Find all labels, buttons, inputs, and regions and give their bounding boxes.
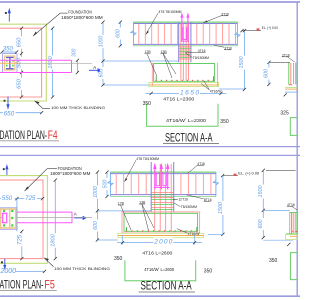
slab top green line — [134, 21, 238, 23]
svg-text:4T8 T8/150MM: 4T8 T8/150MM — [159, 10, 182, 14]
section marker arrow down (F5 bottom) — [1, 259, 6, 270]
svg-text:600: 600 — [116, 29, 122, 38]
beam centerline gray — [19, 62, 92, 64]
sheet frame mid border lower — [0, 154, 300, 156]
dim 2000 horizontal bottom (F5) — [0, 270, 45, 272]
slab top blue line — [110, 173, 215, 175]
svg-text:4T16/W: 4T16/W — [210, 89, 223, 93]
svg-text:325: 325 — [280, 111, 289, 117]
pedestal blue outline verticals — [179, 22, 191, 62]
slab top green line (bottom section) — [110, 171, 215, 173]
dim 500 slab depth (bottom section) — [106, 172, 108, 196]
dim text 650 lower — [18, 78, 23, 90]
leader to FOUNDATION label F4 — [33, 13, 68, 36]
svg-text:650: 650 — [17, 78, 23, 88]
dim 300 beam width — [76, 60, 78, 72]
column bars red verticals (bottom) — [155, 164, 172, 231]
anchor hairpin magenta U — [183, 27, 187, 39]
svg-text:550: 550 — [2, 195, 13, 202]
red dots at wall base — [292, 231, 293, 232]
level line EL 0.00 (bottom sheet mid) — [223, 175, 238, 177]
svg-text:T8/150MM: T8/150MM — [193, 56, 209, 60]
level line (bottom right mini section) — [266, 169, 296, 171]
column F4 steel I-section (indigo) — [6, 57, 14, 70]
tie beam plan F5 (magenta) — [17, 212, 72, 223]
slab bottom blue line — [110, 194, 215, 196]
svg-text:1800: 1800 — [50, 233, 56, 246]
svg-text:12T16: 12T16 — [178, 198, 188, 202]
dim extension stub to footing top (bottom section) — [97, 210, 151, 212]
slab top blue line — [134, 23, 238, 25]
column F5 outer outline (periwinkle) — [0, 208, 17, 230]
svg-text:500: 500 — [17, 57, 23, 67]
orange blinding line (bottom) — [118, 235, 203, 237]
svg-text:4T16/Wʼ L=2300: 4T16/Wʼ L=2300 — [166, 118, 206, 124]
svg-text:1000: 1000 — [93, 186, 99, 198]
svg-text:1500: 1500 — [239, 57, 245, 69]
pedestal blue outline (bottom section) — [151, 162, 174, 212]
dim text 650 upper — [18, 36, 23, 48]
footing pink outline (bottom section) — [122, 212, 200, 233]
foundation outline plan F5 (1800x1800) — [0, 180, 43, 259]
stub lower (bottom right) — [263, 239, 293, 241]
column F4 base plate (tan) — [5, 56, 15, 70]
orange blinding line — [149, 84, 218, 86]
slab bottom green line — [134, 45, 238, 47]
dim 1650 footing width — [146, 92, 227, 94]
column ties green horizontals — [179, 49, 190, 58]
blinding outline plan F4 (100mm blinding, yellow-green) — [0, 24, 46, 101]
wall section green edges — [289, 63, 296, 85]
bar shape green bracket (right top) — [290, 118, 297, 136]
slab bottom green line — [110, 196, 215, 198]
column F5 base grid (tan) — [1, 209, 16, 228]
svg-text:300: 300 — [72, 48, 78, 57]
dim extension stub to blinding bottom — [97, 239, 117, 241]
dim connector vertical x=16.9 — [16, 199, 18, 232]
blinding under footing (bottom) — [118, 233, 204, 237]
dim 1500 (bottom sheet mid) — [222, 176, 224, 235]
stub to right dim — [219, 88, 245, 90]
dim chain left x=21.5 (650/500/650) — [21, 28, 23, 97]
svg-text:600: 600 — [258, 220, 264, 229]
bar bending shape green U (F4) — [147, 104, 218, 127]
dim 600 (right mini section) — [268, 62, 270, 84]
dim 725 vertical (F5 left) — [21, 231, 23, 258]
slab hatch left (bottom) — [116, 174, 146, 195]
title underline F5 — [0, 289, 57, 291]
svg-text:1650: 1650 — [180, 90, 199, 97]
svg-text:1500: 1500 — [218, 202, 224, 214]
footing bottom rebar dots — [156, 80, 215, 81]
column bars red verticals — [181, 24, 189, 81]
wall hatch red (bottom right) — [293, 213, 295, 233]
svg-text:350: 350 — [220, 119, 229, 125]
beam centerline gray (F5) — [0, 216, 2, 218]
blinding box below wall — [286, 235, 298, 240]
svg-text:600: 600 — [98, 69, 104, 78]
footing pink outline (section F4) — [152, 63, 217, 86]
column ties green horizontals (bottom) — [152, 194, 174, 209]
stub from footing to 1500 dim — [208, 233, 223, 235]
foundation outline plan F4 (pink 1650x1800) — [0, 28, 42, 97]
svg-text:EL. (+) 0.00: EL. (+) 0.00 — [262, 26, 278, 30]
wall section (bottom right): pink edge — [289, 212, 291, 233]
svg-text:100 MM THICK BLINDING: 100 MM THICK BLINDING — [54, 266, 110, 271]
svg-text:2000: 2000 — [153, 239, 172, 246]
dim chain left (1000/600) top section — [102, 22, 104, 85]
svg-text:SECTION A-A: SECTION A-A — [141, 278, 193, 292]
svg-text:350: 350 — [143, 101, 152, 107]
dim 2000 footing width (bottom) — [117, 242, 202, 244]
column F5 steel section magenta I — [2, 213, 8, 223]
svg-text:FOUNDATION: FOUNDATION — [68, 10, 92, 15]
svg-text:725: 725 — [25, 195, 36, 202]
column F4 outer outline (periwinkle) — [3, 54, 17, 73]
slab bottom blue line — [134, 43, 238, 45]
level line EL 0.00 (top sheet) — [242, 30, 261, 32]
svg-text:4T16/Wʼ L=2600: 4T16/Wʼ L=2600 — [144, 267, 174, 273]
footing green outline (bottom section) — [124, 213, 198, 231]
sheet frame mid border upper — [0, 146, 300, 148]
footing green outline — [154, 64, 215, 82]
svg-text:4T8 T8/150MM: 4T8 T8/150MM — [136, 157, 159, 161]
slab right break — [215, 172, 217, 196]
svg-text:EL. (+) 0.00: EL. (+) 0.00 — [238, 171, 259, 175]
green line below wall — [286, 233, 297, 235]
svg-text:600: 600 — [264, 69, 270, 78]
svg-text:350: 350 — [114, 256, 123, 262]
dim extension stub to footing bottom — [103, 84, 149, 86]
column F5 rebar dots green — [3, 210, 13, 227]
svg-text:SECTION A-A: SECTION A-A — [165, 130, 213, 144]
anchor hairpins magenta double U — [156, 172, 159, 186]
svg-text:1650*1800*600 MM: 1650*1800*600 MM — [61, 15, 103, 20]
dim text 500 — [18, 57, 23, 69]
blinding lines below wall — [285, 86, 297, 88]
dim chain left (1000/600) bottom section — [96, 172, 98, 240]
stub to wall top (bottom right) — [263, 209, 290, 211]
leader + label 100 MM THICK BLINDING (F5) — [44, 258, 54, 267]
dim 1800 vertical (F5 right) — [54, 180, 56, 259]
slab hatch right (bottom) — [181, 174, 211, 195]
dim 1800 vertical x=52.6 — [52, 28, 54, 97]
blinding outline plan F5 — [0, 176, 47, 264]
svg-text:DATION PLAN-: DATION PLAN- — [0, 130, 47, 142]
sheet frame bottom border — [0, 295, 300, 297]
footing bottom rebar dots (bottom) — [126, 230, 198, 231]
dim ext lines from footing corners — [123, 235, 195, 245]
svg-text:4T16 L=2300: 4T16 L=2300 — [163, 97, 194, 103]
dim extension stub to footing top — [103, 60, 179, 62]
dim 1500 (top sheet right) — [243, 31, 245, 90]
dim 350 top of column — [2, 51, 17, 53]
svg-text:4T16 L=2600: 4T16 L=2600 — [142, 250, 172, 256]
svg-text:500: 500 — [102, 180, 108, 189]
orange centerline near column — [0, 62, 19, 64]
svg-text:4T16/W: 4T16/W — [188, 232, 201, 236]
svg-text:F4: F4 — [48, 130, 58, 142]
svg-text:2000: 2000 — [0, 268, 16, 275]
column ties red horizontals (bottom) — [151, 193, 174, 208]
north arrow plan F5 — [3, 164, 9, 176]
north arrow plan F4 — [5, 8, 11, 22]
blinding under footing — [149, 82, 219, 86]
dim 550/725 horizontal (F5 top) — [0, 198, 43, 200]
svg-text:350: 350 — [269, 258, 278, 264]
bar end hooks (bottom) — [127, 227, 197, 231]
svg-text:650: 650 — [4, 110, 15, 117]
tie beam plan F4 (magenta) — [0, 60, 72, 72]
svg-text:A: A — [74, 212, 77, 217]
slab hatch left (red) — [139, 24, 178, 45]
column F4 rebar dots (green) — [6, 60, 14, 66]
slab left break — [109, 172, 111, 196]
svg-text:A: A — [93, 65, 96, 70]
svg-text:1500: 1500 — [258, 186, 264, 198]
svg-text:350: 350 — [204, 268, 213, 274]
svg-text:F5: F5 — [44, 279, 54, 291]
svg-text:350: 350 — [3, 46, 14, 52]
svg-text:T8/150MM: T8/150MM — [181, 205, 197, 209]
svg-text:1800: 1800 — [48, 55, 54, 68]
slab left break line — [133, 22, 135, 46]
svg-text:1000: 1000 — [98, 36, 104, 48]
svg-text:600: 600 — [93, 221, 99, 230]
svg-text:650: 650 — [17, 37, 23, 47]
leader to FOUNDATION label F5 — [25, 169, 57, 191]
bar end hooks — [156, 76, 213, 80]
section arrow A (plan F4) — [89, 65, 102, 73]
anchor bolts magenta (bottom section) — [155, 166, 168, 190]
dim chain right 1500/600 (bottom sheet) — [262, 170, 264, 237]
orange line in blinding — [290, 235, 297, 237]
wall green edges — [290, 212, 298, 233]
slab right break line — [236, 22, 238, 46]
dim 600 slab depth (top section) — [119, 22, 121, 46]
column ties red horizontals — [179, 47, 191, 59]
svg-text:ATION PLAN-: ATION PLAN- — [0, 279, 44, 291]
anchor bolts magenta with arrowheads — [182, 16, 188, 41]
svg-text:725: 725 — [17, 234, 23, 245]
bar bending shape green U (bottom) — [125, 260, 196, 281]
dim 650 bottom horizontal — [0, 112, 42, 114]
svg-text:1800*1800*600 MM: 1800*1800*600 MM — [50, 171, 91, 176]
sheet frame right border — [296, 2, 298, 296]
wall hatch red — [291, 63, 294, 84]
red dash at wall base — [289, 84, 292, 86]
section marker arrow down (plan F4 bottom) — [4, 97, 10, 110]
wall top line (right mini section, top sheet) — [269, 61, 290, 63]
section arrow A (plan F5) — [74, 212, 87, 221]
leader + label 100 MM THICK BLINDING (F4) — [35, 101, 50, 109]
slab hatch right (red) — [197, 24, 236, 45]
bar shape green bracket (bottom right) — [290, 253, 297, 280]
title underline F4 — [0, 140, 59, 142]
svg-text:100 MM THICK BLINDING: 100 MM THICK BLINDING — [51, 105, 105, 110]
